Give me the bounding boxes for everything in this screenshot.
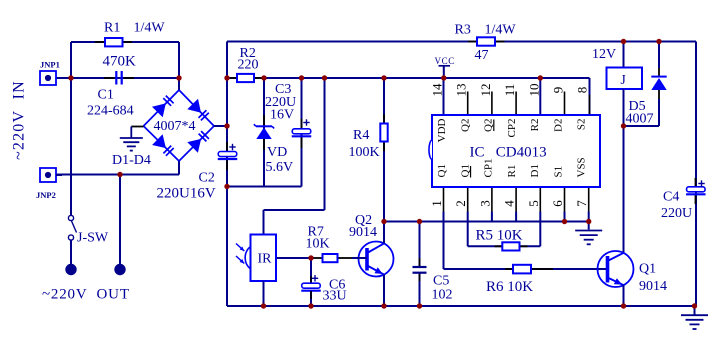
svg-text:Q1: Q1 bbox=[459, 164, 471, 177]
svg-text:13: 13 bbox=[454, 84, 469, 97]
svg-text:Q1: Q1 bbox=[436, 164, 448, 177]
svg-text:R1: R1 bbox=[104, 21, 120, 36]
svg-text:11: 11 bbox=[502, 84, 517, 97]
svg-text:C4: C4 bbox=[663, 190, 679, 205]
svg-text:D1: D1 bbox=[529, 164, 541, 177]
svg-text:5.6V: 5.6V bbox=[266, 160, 294, 175]
svg-text:CP2: CP2 bbox=[506, 119, 518, 138]
svg-text:470K: 470K bbox=[103, 54, 137, 70]
svg-text:R5 10K: R5 10K bbox=[476, 228, 523, 244]
svg-text:D1-D4: D1-D4 bbox=[112, 153, 151, 168]
svg-text:IR: IR bbox=[258, 252, 273, 267]
svg-text:1/4W: 1/4W bbox=[134, 21, 166, 36]
svg-text:Q2: Q2 bbox=[459, 119, 471, 132]
svg-text:VD: VD bbox=[267, 145, 287, 160]
svg-text:47: 47 bbox=[475, 48, 489, 63]
svg-text:33U: 33U bbox=[323, 289, 347, 304]
svg-text:~220V OUT: ~220V OUT bbox=[42, 287, 130, 303]
svg-text:R3: R3 bbox=[455, 23, 471, 38]
svg-text:100K: 100K bbox=[349, 145, 380, 160]
svg-text:IC CD4013: IC CD4013 bbox=[470, 145, 547, 161]
svg-text:8: 8 bbox=[575, 87, 590, 94]
svg-text:C1: C1 bbox=[98, 88, 114, 103]
svg-text:C2: C2 bbox=[199, 171, 215, 186]
svg-text:9: 9 bbox=[551, 87, 566, 94]
svg-text:4007*4: 4007*4 bbox=[154, 119, 196, 134]
svg-text:224-684: 224-684 bbox=[87, 104, 134, 119]
svg-text:J: J bbox=[621, 72, 626, 87]
svg-text:12: 12 bbox=[478, 84, 493, 97]
svg-text:R1: R1 bbox=[506, 165, 518, 178]
svg-text:102: 102 bbox=[432, 288, 453, 303]
svg-text:14: 14 bbox=[430, 83, 445, 97]
svg-text:C5: C5 bbox=[433, 274, 449, 289]
svg-text:10K: 10K bbox=[306, 237, 330, 252]
svg-text:220U16V: 220U16V bbox=[157, 186, 216, 202]
svg-text:10: 10 bbox=[526, 84, 541, 97]
svg-text:R6 10K: R6 10K bbox=[486, 279, 533, 295]
svg-text:JNP2: JNP2 bbox=[36, 190, 56, 200]
svg-text:12V: 12V bbox=[592, 47, 616, 62]
svg-text:2: 2 bbox=[453, 200, 468, 207]
svg-text:220U: 220U bbox=[661, 206, 692, 221]
svg-text:220: 220 bbox=[238, 58, 259, 73]
svg-text:VSS: VSS bbox=[576, 157, 588, 177]
svg-text:5: 5 bbox=[526, 200, 541, 207]
svg-text:R4: R4 bbox=[353, 128, 369, 143]
svg-text:16V: 16V bbox=[270, 108, 294, 123]
svg-text:1/4W: 1/4W bbox=[485, 23, 517, 38]
svg-text:~220V IN: ~220V IN bbox=[11, 80, 28, 160]
svg-text:VDD: VDD bbox=[436, 118, 448, 142]
svg-text:VCC: VCC bbox=[435, 56, 455, 66]
svg-text:3: 3 bbox=[477, 200, 492, 207]
svg-text:7: 7 bbox=[574, 200, 589, 207]
svg-text:D2: D2 bbox=[552, 119, 564, 132]
svg-text:4007: 4007 bbox=[626, 111, 654, 126]
svg-text:S2: S2 bbox=[576, 119, 588, 131]
svg-text:9014: 9014 bbox=[349, 225, 377, 240]
svg-text:4: 4 bbox=[502, 200, 517, 207]
svg-text:Q2: Q2 bbox=[483, 119, 495, 132]
svg-text:1: 1 bbox=[429, 200, 444, 207]
svg-text:CP1: CP1 bbox=[483, 159, 495, 178]
svg-text:Q1: Q1 bbox=[639, 262, 656, 277]
svg-text:R2: R2 bbox=[529, 119, 541, 132]
svg-text:6: 6 bbox=[550, 200, 565, 207]
svg-text:JNP1: JNP1 bbox=[40, 60, 60, 70]
svg-text:S1: S1 bbox=[552, 166, 564, 178]
svg-text:9014: 9014 bbox=[639, 279, 667, 294]
svg-text:J-SW: J-SW bbox=[77, 231, 109, 246]
